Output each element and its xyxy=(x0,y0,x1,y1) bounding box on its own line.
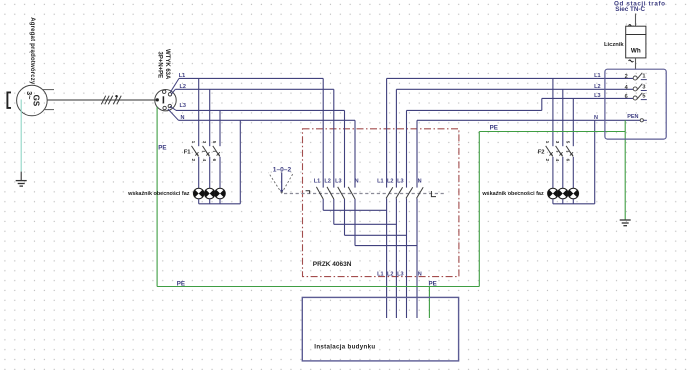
svg-text:F1: F1 xyxy=(184,150,192,156)
svg-text:L2: L2 xyxy=(180,84,186,90)
svg-text:L1: L1 xyxy=(377,179,383,185)
svg-text:PRZK 4063N: PRZK 4063N xyxy=(313,261,352,268)
svg-text:Instalacja budynku: Instalacja budynku xyxy=(314,344,375,351)
svg-text:L3: L3 xyxy=(397,179,403,185)
svg-text:wskaźnik obecności faz: wskaźnik obecności faz xyxy=(127,191,190,197)
svg-text:N: N xyxy=(418,271,422,277)
svg-text:PE: PE xyxy=(429,281,437,288)
svg-text:1: 1 xyxy=(642,74,645,80)
svg-text:L3: L3 xyxy=(397,271,403,277)
svg-text:PE: PE xyxy=(490,124,498,131)
svg-text:L1: L1 xyxy=(179,73,185,79)
svg-text:wskaźnik obecności faz: wskaźnik obecności faz xyxy=(481,191,544,197)
svg-text:L3: L3 xyxy=(335,179,341,185)
svg-text:N: N xyxy=(181,115,185,121)
svg-text:L3: L3 xyxy=(594,93,600,99)
svg-text:Agregat prądotwórczy: Agregat prądotwórczy xyxy=(29,17,35,85)
svg-text:L3: L3 xyxy=(180,103,186,109)
svg-text:Licznik: Licznik xyxy=(604,42,624,48)
svg-text:N: N xyxy=(355,179,359,185)
svg-text:Wh: Wh xyxy=(631,47,641,54)
svg-text:L2: L2 xyxy=(387,271,393,277)
svg-text:N: N xyxy=(594,115,598,121)
svg-text:PE: PE xyxy=(177,280,185,287)
svg-text:2: 2 xyxy=(625,74,628,80)
svg-text:L2: L2 xyxy=(387,179,393,185)
svg-text:L1: L1 xyxy=(314,179,320,185)
svg-text:L1: L1 xyxy=(594,73,600,79)
svg-text:3~: 3~ xyxy=(25,91,32,99)
svg-text:F2: F2 xyxy=(538,150,545,156)
svg-text:6: 6 xyxy=(625,94,628,100)
svg-text:5: 5 xyxy=(642,94,645,100)
svg-text:PEN: PEN xyxy=(627,114,638,120)
svg-text:3P+N+PE: 3P+N+PE xyxy=(157,52,163,79)
svg-text:PE: PE xyxy=(158,145,166,152)
svg-text:L1: L1 xyxy=(377,271,383,277)
svg-text:3: 3 xyxy=(642,84,645,90)
svg-text:Sieć TN-C: Sieć TN-C xyxy=(615,6,645,13)
svg-text:WTYK 63A: WTYK 63A xyxy=(164,49,170,80)
svg-text:L2: L2 xyxy=(594,84,600,90)
svg-text:N: N xyxy=(418,179,422,185)
svg-text:L2: L2 xyxy=(324,179,330,185)
svg-text:GS: GS xyxy=(32,95,41,107)
